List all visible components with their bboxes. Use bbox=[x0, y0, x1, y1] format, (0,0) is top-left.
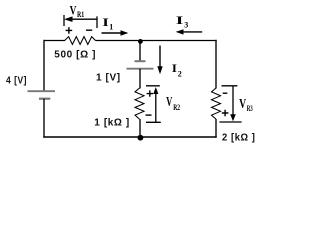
battery V1 4V short plate bbox=[39, 98, 50, 100]
VR3 minus sign bbox=[223, 92, 228, 94]
wire middle vertical mid bbox=[139, 69, 141, 89]
I3 arrow bbox=[183, 31, 203, 33]
VR3 measure arrow bbox=[219, 86, 241, 122]
wire bottom bbox=[43, 136, 216, 138]
wire left vertical upper bbox=[43, 40, 45, 91]
wire middle vertical upper bbox=[139, 41, 141, 61]
VR2 minus sign bbox=[146, 114, 152, 116]
svg-text:R3: R3 bbox=[247, 104, 253, 113]
svg-text:R1: R1 bbox=[77, 10, 84, 19]
wire left vertical lower bbox=[43, 99, 45, 138]
battery V2 1V long plate bbox=[127, 68, 154, 70]
svg-text:V: V bbox=[166, 94, 172, 109]
VR1 measure arrow bbox=[64, 15, 97, 28]
svg-text:I: I bbox=[172, 61, 178, 75]
svg-text:2: 2 bbox=[178, 69, 182, 78]
svg-text:500 [Ω ]: 500 [Ω ] bbox=[54, 50, 96, 61]
svg-text:R2: R2 bbox=[173, 103, 180, 112]
resistor R3 bbox=[212, 88, 221, 119]
svg-text:V: V bbox=[239, 96, 246, 111]
battery V1 4V long plate bbox=[28, 90, 56, 92]
I2 arrow bbox=[159, 46, 161, 67]
wire right vertical lower bbox=[215, 119, 217, 138]
svg-text:4 [V]: 4 [V] bbox=[6, 76, 27, 87]
I1 arrow bbox=[102, 32, 122, 34]
resistor R2 bbox=[135, 88, 144, 119]
wire top-right segment bbox=[96, 40, 217, 42]
svg-text:2 [kΩ ]: 2 [kΩ ] bbox=[222, 133, 256, 144]
svg-text:I: I bbox=[102, 15, 109, 29]
VR1 minus sign bbox=[86, 29, 92, 31]
svg-text:V: V bbox=[70, 2, 77, 17]
VR2 plus sign bbox=[147, 90, 153, 96]
svg-text:1: 1 bbox=[109, 22, 113, 31]
svg-text:1 [V]: 1 [V] bbox=[96, 72, 121, 83]
VR2 measure arrow bbox=[146, 86, 161, 123]
wire right vertical upper bbox=[215, 40, 217, 89]
wire middle vertical lower bbox=[139, 119, 141, 137]
node top junction bbox=[138, 39, 143, 44]
VR1 plus sign bbox=[66, 27, 73, 34]
svg-text:3: 3 bbox=[184, 20, 188, 29]
wire top-left segment bbox=[44, 40, 65, 42]
VR3 plus sign bbox=[222, 110, 229, 117]
resistor R1 bbox=[65, 37, 96, 45]
svg-text:1 [kΩ ]: 1 [kΩ ] bbox=[94, 117, 130, 128]
svg-text:I: I bbox=[176, 13, 184, 27]
node bottom junction bbox=[138, 135, 144, 141]
battery V2 1V short plate bbox=[135, 60, 146, 62]
